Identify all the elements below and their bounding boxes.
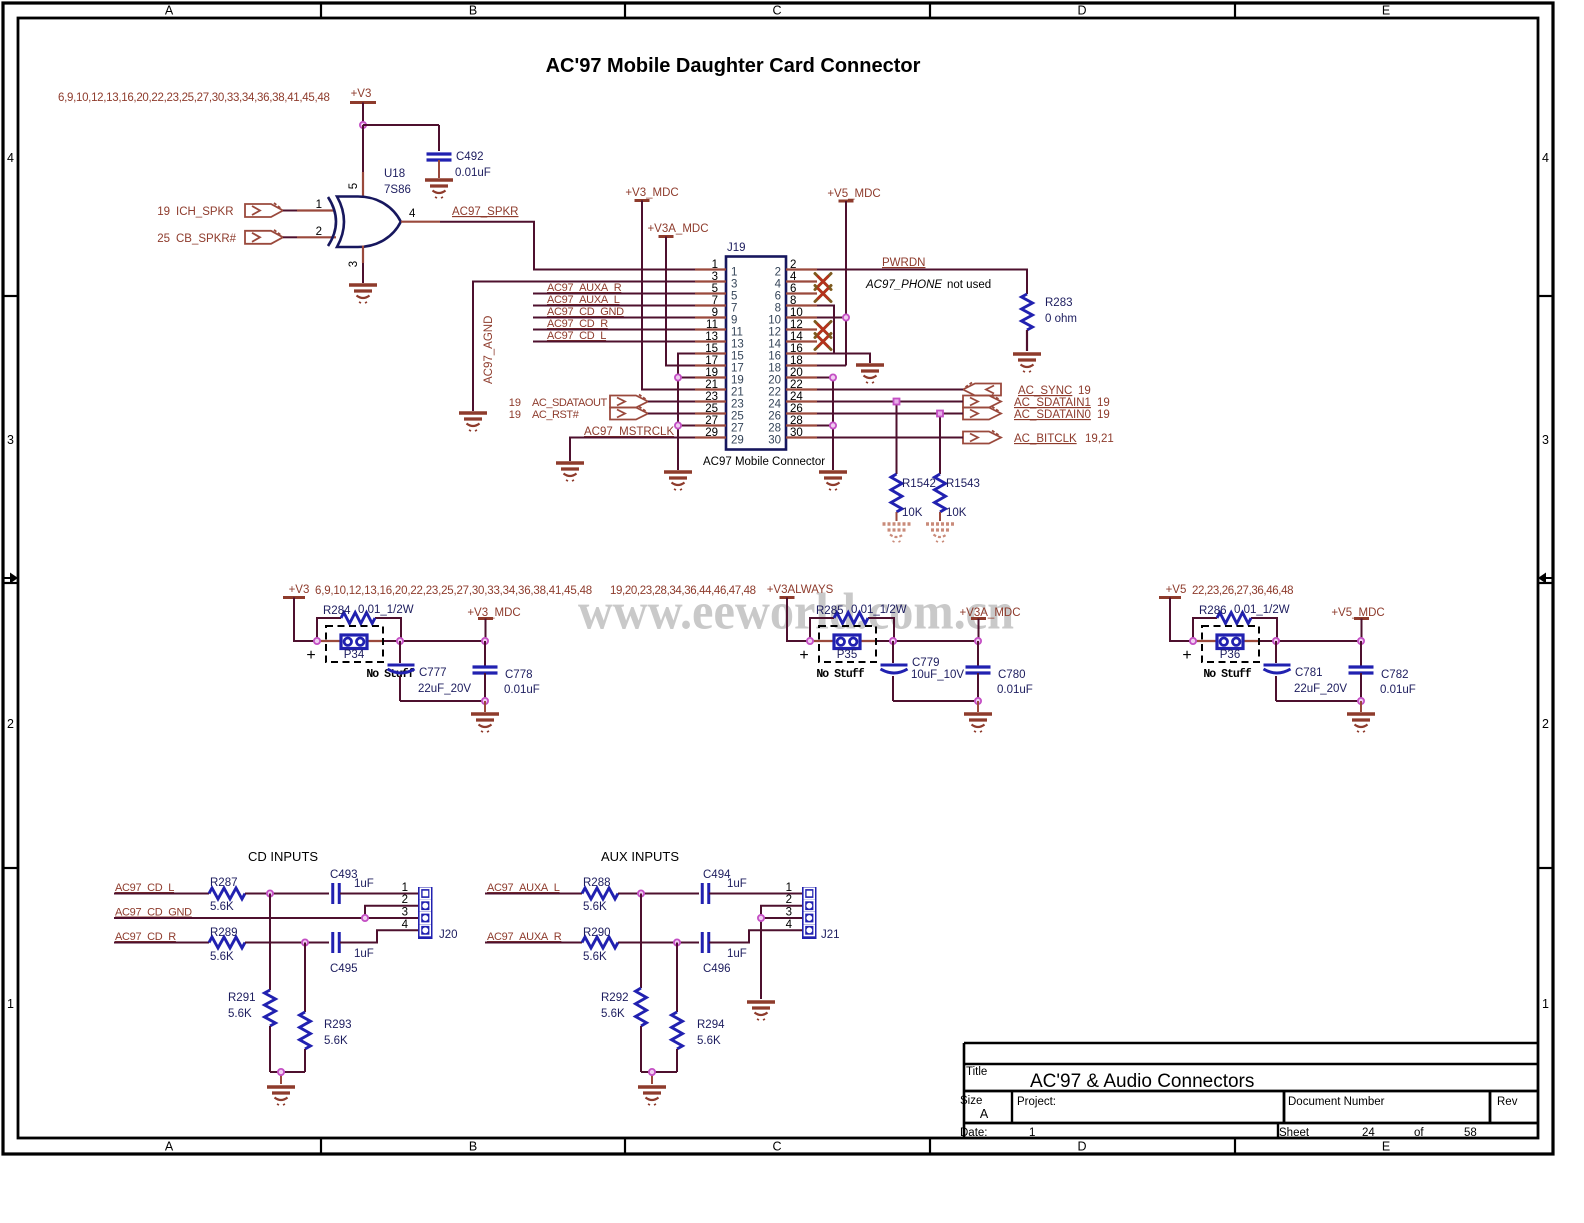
- svg-text:0.01_1/2W: 0.01_1/2W: [1234, 604, 1290, 616]
- svg-text:+: +: [799, 647, 808, 664]
- wire J21 pin2 pin3 to ground: [761, 906, 802, 999]
- wire pin8 pin16 to ground: [817, 306, 870, 364]
- port AC_SDATAOUT: [509, 395, 648, 410]
- wire pins 20-28 ground rail: [817, 378, 833, 471]
- svg-text:25: 25: [705, 403, 718, 415]
- svg-text:J19: J19: [727, 242, 746, 254]
- svg-text:28: 28: [768, 423, 781, 435]
- svg-text:R285: R285: [816, 605, 844, 617]
- wire pin26 AC_SDATAIN0: [817, 413, 963, 415]
- junction CD_R node: [302, 939, 308, 945]
- net label AC97_AUXA_L: [487, 882, 560, 894]
- ground below rail pin15: [664, 472, 692, 490]
- svg-text:B: B: [469, 1140, 477, 1154]
- svg-text:Document Number: Document Number: [1288, 1096, 1385, 1108]
- power symbol +V3: [283, 584, 309, 598]
- svg-text:19: 19: [705, 367, 718, 379]
- wire AC97_AUXA_L: [485, 893, 582, 895]
- svg-text:5.6K: 5.6K: [601, 1008, 625, 1020]
- section header CD INPUTS: [248, 849, 318, 864]
- wire gate input 1: [283, 210, 334, 212]
- svg-text:R284: R284: [323, 605, 351, 617]
- ground below J19: [819, 472, 847, 490]
- svg-text:AC'97 & Audio Connectors: AC'97 & Audio Connectors: [1030, 1071, 1254, 1092]
- wire +V5_MDC stem: [1361, 619, 1363, 642]
- ground below R1543: [926, 524, 954, 542]
- port AC_RST#: [509, 407, 648, 422]
- svg-text:2: 2: [775, 267, 781, 279]
- frame zone letters bottom: [165, 1140, 1390, 1154]
- svg-text:5.6K: 5.6K: [697, 1035, 721, 1047]
- net label AC97_AUXA_L: [547, 294, 620, 306]
- svg-text:26: 26: [768, 411, 781, 423]
- no-connect pin12: [815, 322, 831, 338]
- svg-text:5.6K: 5.6K: [324, 1035, 348, 1047]
- svg-text:+V3A_MDC: +V3A_MDC: [647, 223, 708, 235]
- net label AC97_SPKR: [452, 206, 518, 218]
- svg-text:30: 30: [790, 427, 803, 439]
- capacitor C781: [1264, 641, 1348, 701]
- svg-text:ICH_SPKR: ICH_SPKR: [176, 206, 234, 218]
- svg-text:7: 7: [731, 303, 737, 315]
- svg-text:AC_SDATAIN0: AC_SDATAIN0: [1014, 409, 1091, 421]
- svg-text:PWRDN: PWRDN: [882, 257, 925, 269]
- svg-text:AC_SDATAIN1: AC_SDATAIN1: [1014, 397, 1091, 409]
- svg-text:R294: R294: [697, 1019, 725, 1031]
- svg-text:AC97_AUXA_L: AC97_AUXA_L: [487, 882, 560, 894]
- svg-text:Sheet: Sheet: [1279, 1127, 1310, 1139]
- svg-text:11: 11: [706, 319, 718, 331]
- svg-text:9: 9: [712, 307, 718, 319]
- wire C494 to J21 pin1: [709, 893, 802, 895]
- wire +V5 feed: [1170, 598, 1361, 642]
- no-connect pin6: [815, 286, 831, 302]
- wire R1542 to pin24 net: [896, 402, 898, 475]
- svg-text:J20: J20: [439, 929, 458, 941]
- svg-text:+V5: +V5: [1166, 584, 1187, 596]
- svg-text:AC97_AUXA_L: AC97_AUXA_L: [547, 294, 620, 306]
- watermark: [578, 584, 1014, 641]
- net +V3 pin list: [315, 585, 592, 597]
- svg-text:D: D: [1077, 1140, 1086, 1154]
- svg-text:21: 21: [705, 379, 718, 391]
- svg-text:R1542: R1542: [902, 478, 936, 490]
- svg-text:24: 24: [768, 399, 781, 411]
- port AC_SYNC: [963, 383, 1091, 398]
- junction pin27 rail: [675, 422, 681, 428]
- svg-text:AC97_CD_R: AC97_CD_R: [547, 318, 608, 330]
- svg-text:17: 17: [705, 355, 718, 367]
- svg-text:26: 26: [790, 403, 803, 415]
- svg-text:24: 24: [1362, 1127, 1375, 1139]
- svg-text:18: 18: [790, 355, 803, 367]
- J19 pin numbers inside right: [768, 267, 781, 447]
- svg-text:D: D: [1077, 4, 1086, 18]
- svg-text:C781: C781: [1295, 667, 1323, 679]
- power symbol +V3: [350, 88, 376, 125]
- net label AC97_CD_L: [115, 882, 174, 894]
- junction R1543 tap: [937, 411, 943, 417]
- svg-text:19: 19: [1078, 385, 1091, 397]
- wire C779 bottom: [893, 700, 978, 702]
- svg-text:3: 3: [731, 279, 737, 291]
- svg-text:5.6K: 5.6K: [210, 901, 234, 913]
- junction +V5_MDC: [1358, 638, 1364, 644]
- svg-text:R1543: R1543: [946, 478, 980, 490]
- ground AUX inputs: [638, 1087, 666, 1105]
- svg-text:19: 19: [1097, 409, 1110, 421]
- svg-text:5: 5: [712, 283, 718, 295]
- net label AC97_CD_R: [547, 318, 608, 330]
- wire R283 to ground: [1026, 330, 1028, 351]
- svg-text:23: 23: [731, 399, 744, 411]
- svg-text:4: 4: [402, 919, 409, 931]
- svg-text:5.6K: 5.6K: [583, 901, 607, 913]
- svg-text:AC_RST#: AC_RST#: [532, 409, 580, 421]
- capacitor C782: [1349, 641, 1416, 701]
- frame alignment arrow left: [3, 573, 18, 584]
- svg-text:No Stuff: No Stuff: [1203, 668, 1251, 681]
- resistor R292: [601, 894, 647, 1073]
- svg-text:U18: U18: [384, 168, 405, 180]
- svg-text:2: 2: [7, 717, 14, 731]
- port AC_SDATAIN1: [963, 395, 1110, 410]
- junction +V3_MDC: [482, 638, 488, 644]
- svg-text:AC97_PHONE: AC97_PHONE: [865, 279, 942, 291]
- svg-text:AC97_CD_L: AC97_CD_L: [115, 882, 174, 894]
- wire R290 to C496: [618, 942, 699, 944]
- junction C780 bottom: [975, 698, 981, 704]
- ground +V3_MDC: [471, 714, 499, 732]
- power symbol +V3ALWAYS: [767, 584, 834, 598]
- frame zone letters top: [165, 4, 1390, 18]
- svg-text:A: A: [165, 4, 174, 18]
- junction +V3A_MDC: [975, 638, 981, 644]
- jumper P34 pin stubs: [317, 640, 383, 642]
- resistor R283: [1022, 294, 1077, 330]
- wire AC97_CD_R: [114, 942, 209, 944]
- svg-text:24: 24: [790, 391, 803, 403]
- svg-text:1: 1: [731, 267, 737, 279]
- junction CD ground: [278, 1069, 284, 1075]
- svg-text:22: 22: [768, 387, 781, 399]
- wire +V3_MDC stem: [485, 619, 487, 642]
- svg-text:29: 29: [705, 427, 718, 439]
- svg-text:5.6K: 5.6K: [228, 1008, 252, 1020]
- svg-text:0.01uF: 0.01uF: [1380, 684, 1416, 696]
- power symbol +V3A_MDC at J19: [647, 223, 708, 237]
- wire AUX resistors to ground: [641, 1072, 677, 1084]
- connector J20: [402, 882, 458, 941]
- svg-text:R290: R290: [583, 927, 611, 939]
- svg-text:1: 1: [402, 882, 408, 894]
- J19 pin numbers outside left: [705, 259, 718, 439]
- junction P34 out: [397, 638, 403, 644]
- svg-text:AC_SDATAOUT: AC_SDATAOUT: [532, 397, 607, 409]
- net +V5 pin list: [1192, 585, 1293, 597]
- junction AUX ground: [649, 1069, 655, 1075]
- resistor R1543: [935, 474, 980, 519]
- svg-text:1uF: 1uF: [354, 878, 374, 890]
- J19 pin numbers outside right: [790, 259, 803, 439]
- svg-text:0.01uF: 0.01uF: [455, 167, 491, 179]
- jumper P36: [1202, 626, 1259, 662]
- svg-text:AC97_AGND: AC97_AGND: [483, 316, 495, 384]
- svg-text:3: 3: [348, 261, 360, 267]
- resistor R284 bypass wire: [317, 618, 401, 641]
- junction P36 in: [1190, 638, 1196, 644]
- svg-text:A: A: [165, 1140, 174, 1154]
- svg-text:C778: C778: [505, 669, 533, 681]
- svg-text:17: 17: [731, 363, 744, 375]
- svg-text:+V3_MDC: +V3_MDC: [625, 187, 678, 199]
- connector J21: [786, 882, 840, 941]
- svg-text:19,21: 19,21: [1085, 433, 1114, 445]
- svg-text:6: 6: [790, 283, 796, 295]
- svg-text:+V3: +V3: [351, 88, 372, 100]
- svg-text:23: 23: [705, 391, 718, 403]
- net label AC97_CD_GND: [115, 907, 192, 919]
- svg-text:+: +: [1182, 647, 1191, 664]
- svg-text:22uF_20V: 22uF_20V: [1294, 683, 1347, 695]
- wire AC97_AUXA_R: [485, 942, 582, 944]
- svg-text:8: 8: [775, 303, 781, 315]
- svg-text:10: 10: [768, 315, 781, 327]
- wire pin22 AC_SYNC: [817, 389, 963, 391]
- svg-text:5: 5: [731, 291, 737, 303]
- svg-text:4: 4: [775, 279, 782, 291]
- svg-text:C779: C779: [912, 657, 940, 669]
- net label AC97_AGND: [483, 316, 495, 384]
- svg-text:19: 19: [1097, 397, 1110, 409]
- svg-text:0 ohm: 0 ohm: [1045, 313, 1077, 325]
- port CB_SPKR#: [157, 230, 283, 245]
- sheet title: [546, 55, 921, 77]
- ground +V3A_MDC: [964, 714, 992, 732]
- svg-text:C777: C777: [419, 667, 447, 679]
- junction P34 in: [314, 638, 320, 644]
- svg-text:C492: C492: [456, 151, 484, 163]
- svg-text:AC97_AUXA_R: AC97_AUXA_R: [487, 931, 562, 943]
- svg-text:No Stuff: No Stuff: [816, 668, 864, 681]
- svg-text:R288: R288: [583, 877, 611, 889]
- ground below R283: [1013, 354, 1041, 372]
- svg-text:25: 25: [731, 411, 744, 423]
- svg-text:7S86: 7S86: [384, 184, 411, 196]
- svg-text:not used: not used: [947, 279, 991, 291]
- svg-text:AC97_CD_L: AC97_CD_L: [547, 330, 606, 342]
- svg-text:+V3ALWAYS: +V3ALWAYS: [767, 584, 834, 596]
- frame zone numbers left: [7, 151, 14, 1011]
- power symbol +V5_MDC: [1331, 607, 1384, 619]
- wire pin27 to rail: [678, 425, 695, 427]
- wire AC97_CD_R: [533, 329, 695, 331]
- svg-text:25: 25: [157, 233, 170, 245]
- svg-text:B: B: [469, 4, 477, 18]
- wire pin25: [648, 413, 695, 415]
- svg-text:AC97_MSTRCLK: AC97_MSTRCLK: [584, 426, 674, 438]
- svg-text:10K: 10K: [902, 507, 923, 519]
- wire CD resistors to ground: [270, 1072, 305, 1084]
- resistor R294: [672, 943, 726, 1073]
- svg-text:C780: C780: [998, 669, 1026, 681]
- junction AUXA_L node: [638, 890, 644, 896]
- ground J21: [747, 1002, 775, 1020]
- wire AC97_AGND pin 3: [473, 282, 695, 412]
- svg-text:18: 18: [768, 363, 781, 375]
- wire pin21 to +V3_MDC: [642, 201, 695, 390]
- wire AC97_CD_L: [114, 893, 209, 895]
- resistor R291: [228, 894, 276, 1073]
- svg-text:22,23,26,27,36,46,48: 22,23,26,27,36,46,48: [1192, 585, 1293, 597]
- jumper P34: [326, 626, 383, 662]
- jumper P36 pin stubs: [1193, 640, 1259, 642]
- resistor R284: [323, 604, 414, 624]
- note AC97_PHONE not used: [865, 279, 991, 291]
- junction pin10 +V5_MDC: [843, 314, 849, 320]
- J19 pin stubs right: [786, 270, 817, 438]
- svg-text:A: A: [980, 1107, 989, 1121]
- svg-text:J21: J21: [821, 929, 840, 941]
- svg-text:13: 13: [731, 339, 744, 351]
- junction P35 out: [890, 638, 896, 644]
- wire C778 to ground: [484, 701, 486, 712]
- svg-text:Project:: Project:: [1017, 1096, 1056, 1108]
- junction C782 bottom: [1358, 698, 1364, 704]
- net label AC97_CD_R: [115, 931, 176, 943]
- section header AUX INPUTS: [601, 849, 679, 864]
- connector J19 body: [726, 242, 786, 450]
- svg-text:AC97_CD_R: AC97_CD_R: [115, 931, 176, 943]
- polarity plus P36: [1182, 647, 1191, 664]
- svg-text:1: 1: [1029, 1127, 1035, 1139]
- svg-text:Size: Size: [960, 1095, 982, 1107]
- svg-text:4: 4: [409, 208, 416, 220]
- svg-text:20: 20: [790, 367, 803, 379]
- svg-text:Rev: Rev: [1497, 1096, 1518, 1108]
- svg-text:R289: R289: [210, 927, 238, 939]
- svg-text:16: 16: [768, 351, 781, 363]
- svg-text:of: of: [1414, 1127, 1424, 1139]
- resistor R287: [209, 877, 245, 913]
- wire pin15 to agnd rail: [678, 354, 695, 471]
- svg-text:R287: R287: [210, 877, 238, 889]
- svg-text:C496: C496: [703, 963, 731, 975]
- label AC97 Mobile Connector: [703, 456, 825, 468]
- svg-text:3: 3: [786, 907, 792, 919]
- power symbol +V5_MDC at J19: [827, 188, 880, 201]
- svg-text:28: 28: [790, 415, 803, 427]
- wire +V3A_MDC stem: [978, 619, 980, 642]
- wire PWRDN pin2 to R283: [817, 270, 1027, 295]
- resistor R289: [209, 927, 245, 963]
- svg-text:20: 20: [768, 375, 781, 387]
- svg-text:1: 1: [1542, 997, 1549, 1011]
- svg-text:30: 30: [768, 435, 781, 447]
- capacitor C493: [330, 869, 374, 904]
- ground pins 8-16: [856, 365, 884, 383]
- svg-text:6,9,10,12,13,16,20,22,23,25,27: 6,9,10,12,13,16,20,22,23,25,27,30,33,34,…: [315, 585, 592, 597]
- resistor R285: [816, 604, 907, 624]
- svg-text:AC97 Mobile Connector: AC97 Mobile Connector: [703, 456, 825, 468]
- net label AC97_AUXA_R: [487, 931, 562, 943]
- junction P35 in: [807, 638, 813, 644]
- ground below R1542: [883, 524, 911, 542]
- svg-text:11: 11: [731, 327, 743, 339]
- wire V3 to gate pin 5: [362, 125, 364, 198]
- wire AC97_CD_GND: [114, 917, 418, 919]
- svg-text:4: 4: [786, 919, 793, 931]
- svg-text:AC97_AUXA_R: AC97_AUXA_R: [547, 282, 622, 294]
- jumper P35 pin stubs: [810, 640, 876, 642]
- wire R1543 to pin26 net: [939, 414, 941, 475]
- svg-text:AC'97 Mobile Daughter Card Con: AC'97 Mobile Daughter Card Connector: [546, 55, 921, 77]
- capacitor C492: [427, 125, 491, 179]
- resistor R288: [582, 877, 618, 913]
- wire pin30 AC_BITCLK: [817, 437, 963, 439]
- wire AC97_CD_L: [533, 341, 695, 343]
- frame zone numbers right: [1542, 151, 1549, 1011]
- wire C493 to J20 pin1: [340, 893, 418, 895]
- svg-text:AC97_CD_GND: AC97_CD_GND: [115, 907, 192, 919]
- svg-text:1uF: 1uF: [727, 948, 747, 960]
- wire +V3ALWAYS feed: [787, 598, 978, 642]
- net +V3 pin list: [58, 92, 330, 104]
- svg-text:22: 22: [790, 379, 803, 391]
- wire R289 to C495: [245, 942, 329, 944]
- svg-text:E: E: [1382, 1140, 1390, 1154]
- svg-text:1: 1: [316, 199, 322, 211]
- ground below C492: [425, 180, 453, 198]
- svg-text:10K: 10K: [946, 507, 967, 519]
- svg-text:4: 4: [7, 151, 14, 165]
- no-connect pin14: [815, 334, 831, 350]
- resistor R285 bypass wire: [810, 618, 894, 641]
- frame alignment arrow right: [1538, 573, 1553, 584]
- svg-text:9: 9: [731, 315, 737, 327]
- svg-text:C495: C495: [330, 963, 358, 975]
- svg-text:2: 2: [790, 259, 796, 271]
- ground CD inputs: [267, 1087, 295, 1105]
- svg-text:2: 2: [402, 894, 408, 906]
- svg-text:P35: P35: [837, 649, 857, 661]
- svg-text:15: 15: [731, 351, 744, 363]
- svg-text:19: 19: [509, 397, 521, 409]
- svg-text:19: 19: [509, 409, 521, 421]
- wire C782 to ground: [1360, 701, 1362, 712]
- ground below MSTRCLK: [556, 463, 584, 481]
- junction J21 pin3: [758, 915, 764, 921]
- svg-text:+V3: +V3: [289, 584, 310, 596]
- svg-text:+V3_MDC: +V3_MDC: [467, 607, 520, 619]
- svg-text:29: 29: [731, 435, 744, 447]
- label No Stuff P34: [366, 668, 414, 681]
- net label PWRDN: [882, 257, 925, 269]
- junction CD_L node: [267, 890, 273, 896]
- power symbol +V3A_MDC: [959, 607, 1020, 619]
- junction AUXA_R node: [674, 939, 680, 945]
- xor gate U18 (7S86): [316, 168, 416, 267]
- wire +V3 feed: [294, 598, 485, 642]
- wire pin29 AC97_MSTRCLK: [570, 438, 695, 462]
- svg-text:16: 16: [790, 343, 803, 355]
- svg-text:C782: C782: [1381, 669, 1409, 681]
- svg-text:13: 13: [705, 331, 718, 343]
- svg-text:AUX INPUTS: AUX INPUTS: [601, 849, 679, 864]
- svg-text:3: 3: [402, 907, 408, 919]
- svg-text:6: 6: [775, 291, 781, 303]
- wire J20 pin2 jog: [365, 906, 418, 918]
